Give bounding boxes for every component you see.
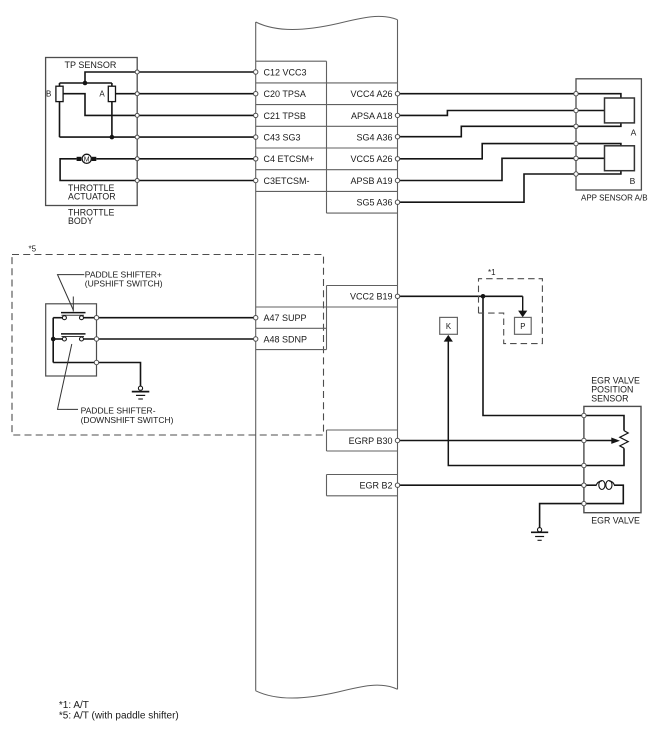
- svg-text:SENSOR: SENSOR: [591, 394, 628, 404]
- svg-text:C4 ETCSM+: C4 ETCSM+: [264, 154, 315, 164]
- pin C12 VCC3 label: [264, 67, 307, 77]
- label A: [631, 127, 637, 137]
- wire A48 SDNP left segment: [53, 338, 62, 340]
- wire element B bottom: [59, 102, 61, 138]
- svg-text:C3ETCSM-: C3ETCSM-: [264, 176, 310, 186]
- label B: [46, 90, 51, 99]
- ECM left pin cells grid: [256, 61, 398, 213]
- paddle shifter+ switch S1: [61, 297, 86, 320]
- EGRP B30 cell: [327, 430, 398, 451]
- pin VCC4 A26 label: [350, 89, 392, 99]
- ECM band torn top edge: [256, 16, 398, 29]
- ground paddle shifter: [132, 386, 150, 399]
- EGR VALVE label: [591, 516, 640, 526]
- connector box P: [515, 317, 532, 334]
- APP sensor element A: [605, 98, 635, 123]
- label B: [630, 176, 636, 186]
- svg-text:A: A: [99, 90, 105, 99]
- wire A47 SUPP left segment: [53, 317, 62, 319]
- label *5: [29, 244, 37, 253]
- PADDLE SHIFTER- label: [81, 406, 174, 425]
- wire SG5 A36 to APP sensor B: [398, 171, 621, 203]
- note *5 A/T with paddle shifter: [59, 711, 179, 722]
- wire EGR valve to ground: [540, 504, 584, 528]
- svg-text:SG5 A36: SG5 A36: [356, 198, 392, 208]
- pin C3ETCSM- label: [264, 176, 310, 186]
- svg-text:A: A: [631, 127, 637, 137]
- pin C4 ETCSM+ label: [264, 154, 315, 164]
- pin SG4 A36 label: [356, 133, 392, 143]
- svg-text:EGRP B30: EGRP B30: [349, 436, 393, 446]
- paddle shifter switch box: [46, 304, 97, 376]
- wire EGRP B30 with arrow to wiper: [398, 438, 621, 444]
- wire APSB A19 to APP sensor B: [398, 158, 605, 180]
- pin APSA A18 label: [351, 111, 393, 121]
- EGR box terminal circles: [582, 413, 586, 506]
- wire EGR sensor low side: [584, 448, 624, 465]
- throttle actuator motor M: [77, 154, 97, 163]
- PADDLE SHIFTER+ label: [85, 269, 163, 288]
- TP sensor element A: [108, 86, 115, 101]
- EGR B2 cell: [327, 475, 398, 496]
- svg-text:ACTUATOR: ACTUATOR: [68, 191, 116, 201]
- pin terminal circles left column: [254, 70, 258, 183]
- pin C20 TPSA label: [264, 89, 306, 99]
- svg-text:VCC2 B19: VCC2 B19: [350, 292, 393, 302]
- wire SG4 A36 to APP sensor A: [398, 123, 621, 137]
- pin circle EGR B2: [395, 483, 399, 487]
- svg-text:C21 TPSB: C21 TPSB: [264, 111, 306, 121]
- APP box terminal circles: [574, 92, 578, 177]
- wire APSA A18 to APP sensor A: [398, 111, 605, 116]
- wire A47 SUPP to ECM: [84, 317, 256, 319]
- svg-text:VCC4 A26: VCC4 A26: [350, 89, 392, 99]
- svg-text:(DOWNSHIFT SWITCH): (DOWNSHIFT SWITCH): [81, 415, 174, 425]
- THROTTLE ACTUATOR label: [68, 183, 116, 201]
- svg-text:APSB A19: APSB A19: [350, 176, 392, 186]
- svg-text:B: B: [46, 90, 51, 99]
- note *1 A/T: [59, 700, 89, 711]
- pin circle EGRP: [395, 438, 399, 442]
- switch box edge circles: [94, 316, 98, 365]
- pin VCC5 A26 label: [350, 154, 392, 164]
- svg-text:EGR VALVE: EGR VALVE: [591, 516, 640, 526]
- wire VCC2 branch to EGR sensor: [483, 296, 584, 415]
- wire VCC5 A26 to APP sensor B: [398, 144, 621, 159]
- wire C3ETCSM- motor return: [60, 159, 256, 181]
- wire TP sensor top bar: [60, 82, 112, 84]
- wire C21 TPSB from element B: [63, 94, 256, 116]
- label *1: [488, 268, 496, 277]
- THROTTLE BODY label: [68, 208, 115, 226]
- wire element A bottom: [111, 102, 113, 138]
- EGR valve box: [584, 406, 641, 512]
- pin VCC2 B19 label: [350, 292, 393, 302]
- svg-text:K: K: [446, 322, 452, 331]
- svg-text:C20 TPSA: C20 TPSA: [264, 89, 306, 99]
- wire arrow into K from EGR sensor: [444, 335, 584, 466]
- dashed box *1: [479, 279, 543, 344]
- wire EGR sensor VCC side: [584, 416, 624, 431]
- TP SENSOR label: [65, 60, 117, 70]
- pin A48 SDNP label: [264, 334, 308, 344]
- svg-text:*1: A/T: *1: A/T: [59, 700, 89, 711]
- pin A47 SUPP label: [264, 313, 307, 323]
- VCC2 / A47 / A48 cells grid: [256, 286, 398, 350]
- pin terminal circles right column: [395, 92, 399, 205]
- wire C4 ETCSM+ to motor: [96, 158, 255, 160]
- pin circles A47 A48: [254, 316, 258, 342]
- svg-text:APSA A18: APSA A18: [351, 111, 393, 121]
- wire B resistor top stub: [59, 83, 61, 86]
- wire C43 SG3 bottom bar: [60, 136, 256, 138]
- throttle body box edge terminal circles: [135, 70, 139, 183]
- svg-text:M: M: [84, 157, 90, 164]
- svg-text:*5: A/T (with paddle shifter): *5: A/T (with paddle shifter): [59, 711, 179, 722]
- svg-text:*1: *1: [488, 268, 496, 277]
- connector box K: [440, 317, 458, 334]
- label A: [99, 90, 105, 99]
- EGR position sensor resistor: [620, 431, 628, 449]
- pin EGR B2 label: [359, 480, 392, 490]
- wire A resistor top stub: [111, 83, 113, 86]
- pin APSB A19 label: [350, 176, 392, 186]
- svg-text:(UPSHIFT SWITCH): (UPSHIFT SWITCH): [85, 279, 163, 289]
- pin EGRP B30 label: [349, 436, 393, 446]
- APP sensor element B: [605, 146, 635, 171]
- pointer line paddle shifter+: [58, 275, 85, 310]
- svg-text:BODY: BODY: [68, 216, 93, 226]
- pin circle VCC2: [395, 294, 399, 298]
- APP sensor A/B box: [576, 79, 641, 190]
- junction dot VCC2 branch: [481, 294, 486, 299]
- svg-text:A47 SUPP: A47 SUPP: [264, 313, 307, 323]
- TP sensor element B: [56, 86, 63, 101]
- svg-text:C12 VCC3: C12 VCC3: [264, 67, 307, 77]
- svg-text:VCC5 A26: VCC5 A26: [350, 154, 392, 164]
- svg-text:APP SENSOR A/B: APP SENSOR A/B: [581, 194, 648, 203]
- junction dot SG3 bar: [110, 135, 115, 140]
- svg-text:B: B: [630, 176, 636, 186]
- svg-text:TP SENSOR: TP SENSOR: [65, 60, 117, 70]
- paddle shifter dashed box *5: [12, 255, 324, 436]
- wire C12 VCC3 to TP sensor: [85, 72, 256, 83]
- ECM connector band left edge: [255, 22, 257, 691]
- ground EGR valve: [531, 528, 548, 541]
- EGR valve coil L1: [584, 481, 623, 504]
- wire arrow into P: [518, 296, 527, 317]
- svg-text:A48 SDNP: A48 SDNP: [264, 334, 308, 344]
- svg-text:EGR B2: EGR B2: [359, 480, 392, 490]
- pin C43 SG3 label: [264, 133, 301, 143]
- svg-text:*5: *5: [29, 244, 37, 253]
- wire EGR B2 to EGR valve: [398, 484, 584, 486]
- pin SG5 A36 label: [356, 198, 392, 208]
- wire switch common vertical: [52, 318, 54, 363]
- APP SENSOR A/B label: [581, 194, 648, 203]
- wire C20 TPSA from element A: [116, 93, 256, 95]
- wire VCC2 B19: [398, 295, 523, 297]
- throttle body box: [46, 58, 138, 206]
- EGR VALVE POSITION SENSOR label: [591, 376, 640, 404]
- pointer line paddle shifter-: [58, 344, 79, 409]
- ECM connector band right edge: [397, 20, 399, 690]
- junction dot VCC3 bar: [83, 81, 88, 86]
- ECM band torn bottom edge: [256, 685, 398, 698]
- paddle shifter- switch S2: [61, 334, 86, 341]
- wire VCC4 A26 to APP sensor A: [398, 94, 621, 98]
- svg-text:SG4 A36: SG4 A36: [356, 133, 392, 143]
- svg-text:P: P: [520, 322, 525, 331]
- pin C21 TPSB label: [264, 111, 306, 121]
- wire A48 SDNP to ECM: [84, 338, 256, 340]
- wire switch common to ground: [53, 363, 140, 387]
- svg-text:C43 SG3: C43 SG3: [264, 133, 301, 143]
- junction dot switch common: [51, 337, 56, 342]
